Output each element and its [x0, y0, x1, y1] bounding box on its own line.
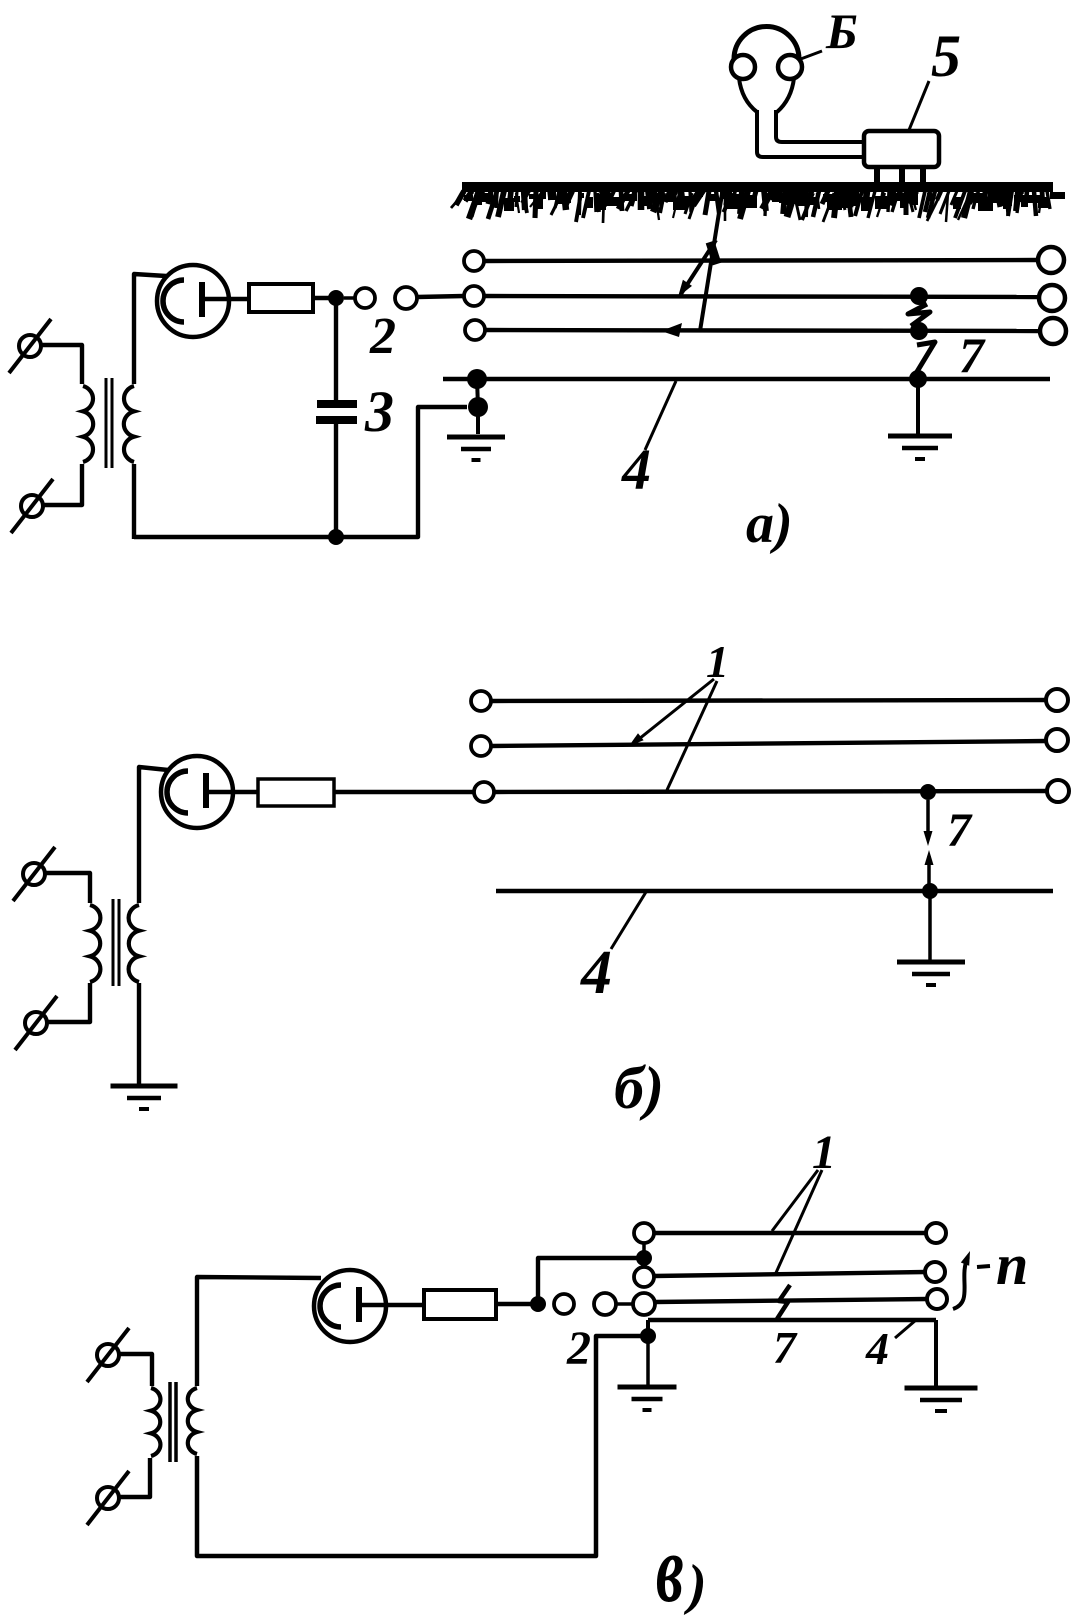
wire line 3 (a) — [465, 318, 1066, 344]
resistor R (v) — [424, 1290, 496, 1319]
resistor R (a) — [249, 284, 313, 312]
label 7 (a) — [959, 327, 986, 383]
svg-text:4: 4 — [580, 939, 612, 1007]
svg-text:4: 4 — [865, 1323, 889, 1374]
right end of line 4 down to ground (v) — [934, 1320, 938, 1386]
fault junction dot on line 3 (b) — [920, 784, 936, 800]
ground electrode left (a) — [447, 407, 505, 460]
wire jack2 to transformer primary (b) — [47, 983, 90, 1022]
transformer T (a) — [83, 378, 134, 468]
label 4 with leader (a) — [621, 381, 676, 502]
headphones B — [731, 27, 864, 158]
insulation fault mark between lines 2 and 3 (a) — [908, 304, 930, 326]
fault distance arrow upper (b) — [924, 800, 933, 846]
generator G (a) — [157, 265, 229, 337]
wire line 2 (b) — [471, 729, 1068, 756]
input jack terminal (b, top) — [13, 847, 55, 901]
label 4 with leader (v) — [865, 1320, 916, 1374]
output terminal 2 (left circle, v) — [554, 1294, 574, 1314]
input jack terminal (v, bottom) — [87, 1471, 129, 1525]
wire jack2 to transformer primary (a) — [43, 464, 82, 505]
node junction at resistor output (a) — [328, 290, 344, 306]
insulation fault mark between line 3 and line 4 (a) — [915, 342, 935, 375]
wire line 1 (a) — [464, 247, 1064, 273]
wire transformer secondary up to generator (b) — [139, 767, 168, 903]
junction dot below line4 left (a) — [468, 379, 488, 417]
wire line 3 (v) — [633, 1289, 947, 1315]
input jack terminal (b, bottom) — [15, 996, 57, 1050]
bottom rail wire (a) — [134, 407, 467, 537]
wire line 1 (v) — [634, 1223, 946, 1243]
insulation fault mark on line 3 (v) — [777, 1285, 790, 1319]
svg-text:n: n — [996, 1232, 1028, 1297]
caption a) — [746, 493, 793, 555]
wire resistor to line 3 (b) — [334, 790, 475, 794]
branch wire from node to lines 1-2 junction (v) — [538, 1258, 637, 1304]
ground electrode right (v) — [905, 1388, 978, 1411]
output terminal 2 (right circle, v) — [594, 1293, 616, 1315]
label 5 with leader — [909, 23, 961, 130]
svg-text:3: 3 — [364, 379, 394, 444]
output terminal 2 (right circle) — [395, 287, 417, 309]
junction dot line4 right (a) — [909, 370, 927, 388]
wire line 2 (v) — [634, 1262, 945, 1287]
label 1 with leaders (v) — [772, 1126, 836, 1275]
leader lines for wires 1 (a) — [661, 194, 722, 337]
generator G (v) — [314, 1270, 386, 1342]
svg-text:5: 5 — [931, 23, 961, 89]
svg-text:б): б) — [614, 1055, 664, 1121]
svg-text:7: 7 — [773, 1322, 798, 1373]
wire terminal to line 2 (a) — [417, 296, 464, 297]
wire terminal to line 3 (v) — [616, 1302, 634, 1306]
ground electrode at transformer (b) — [111, 1086, 178, 1109]
wire resistor to node (v) — [496, 1302, 534, 1306]
wire resistor to node (a) — [313, 296, 340, 300]
junction dot at line 4 left ground (v) — [640, 1328, 656, 1344]
wire line 1 (b) — [471, 689, 1068, 711]
input jack terminal (a, bottom) — [11, 479, 53, 533]
label 1 with leaders (b) — [629, 636, 729, 790]
svg-text:в: в — [656, 1517, 684, 1615]
label 7 (b) — [947, 804, 973, 857]
wire generator output (v) — [360, 1303, 426, 1307]
ground electrode left (v) — [618, 1342, 677, 1410]
caption v) — [656, 1517, 707, 1615]
svg-text:7: 7 — [959, 327, 986, 383]
fault distance arrow lower (b) — [925, 850, 934, 888]
transformer T (b) — [90, 899, 139, 986]
wire line 4 / earth return (v) — [648, 1318, 936, 1322]
ground electrode (b) — [897, 897, 965, 985]
earth surface (ground hatching) — [451, 182, 1065, 223]
wire generator output (b) — [206, 790, 260, 794]
wire transformer secondary up and to generator (v) — [197, 1277, 321, 1386]
bottom loop wire from transformer to line4 ground (v) — [197, 1336, 641, 1556]
output terminal 2 (left circle) — [344, 288, 375, 308]
resistor R (b) — [258, 779, 334, 806]
ground electrode right (a) — [888, 385, 952, 459]
wire line 4 / earth return (b) — [496, 889, 1053, 894]
wire jack1 to transformer primary (a) — [41, 345, 82, 384]
capacitor 3 (a) — [316, 305, 357, 532]
wire jack2 to transformer primary (v) — [119, 1458, 150, 1497]
wire line 4 / earth return (a) — [443, 377, 1050, 382]
wire jack1 to transformer primary (v) — [119, 1354, 152, 1386]
caption b) — [614, 1055, 664, 1121]
junction dot on line 4 (b) — [922, 883, 938, 899]
label 7 (v) — [773, 1322, 798, 1373]
label 2 (v) — [566, 1322, 591, 1375]
wire line 2 (a) — [464, 285, 1065, 311]
label 2 (a) — [369, 308, 396, 365]
wire transformer secondary down to ground (b) — [137, 983, 141, 1084]
label B (headphones) — [798, 3, 858, 60]
cable test set 5 — [864, 131, 939, 184]
input jack terminal (v, top) — [87, 1328, 129, 1382]
wire generator output (a) — [202, 297, 251, 301]
svg-text:1: 1 — [706, 636, 729, 687]
wire line 3 (b) — [474, 780, 1069, 802]
svg-text:а): а) — [746, 493, 793, 555]
transformer T (v) — [151, 1382, 197, 1462]
svg-text:2: 2 — [566, 1322, 591, 1375]
wire jack1 to transformer primary (b) — [45, 873, 90, 903]
svg-text:7: 7 — [947, 804, 973, 857]
left end of line 4 down to junction (v) — [646, 1320, 650, 1336]
svg-text:2: 2 — [369, 308, 396, 365]
node junction at resistor output (v) — [530, 1296, 546, 1312]
input jack terminal (a, top) — [9, 319, 51, 373]
junction dot between line1 and line2 terminals (v) — [636, 1243, 652, 1268]
label 3 (a) — [364, 379, 394, 444]
fault junction dot on line 2 (a) — [910, 287, 928, 305]
label 4 with leader (b) — [580, 892, 646, 1007]
junction dot line4 left (a) — [467, 369, 487, 389]
bottom rail junction dot (a) — [328, 529, 344, 545]
fault junction dot on line 3 (a) — [910, 322, 928, 340]
label 1-n (wire numbering, v) — [953, 1232, 1028, 1309]
svg-text:Б: Б — [825, 3, 858, 59]
wire transformer secondary to generator (a) — [134, 274, 166, 384]
generator G (b) — [161, 756, 233, 828]
wire transformer secondary down to bottom rail (a) — [132, 464, 136, 539]
